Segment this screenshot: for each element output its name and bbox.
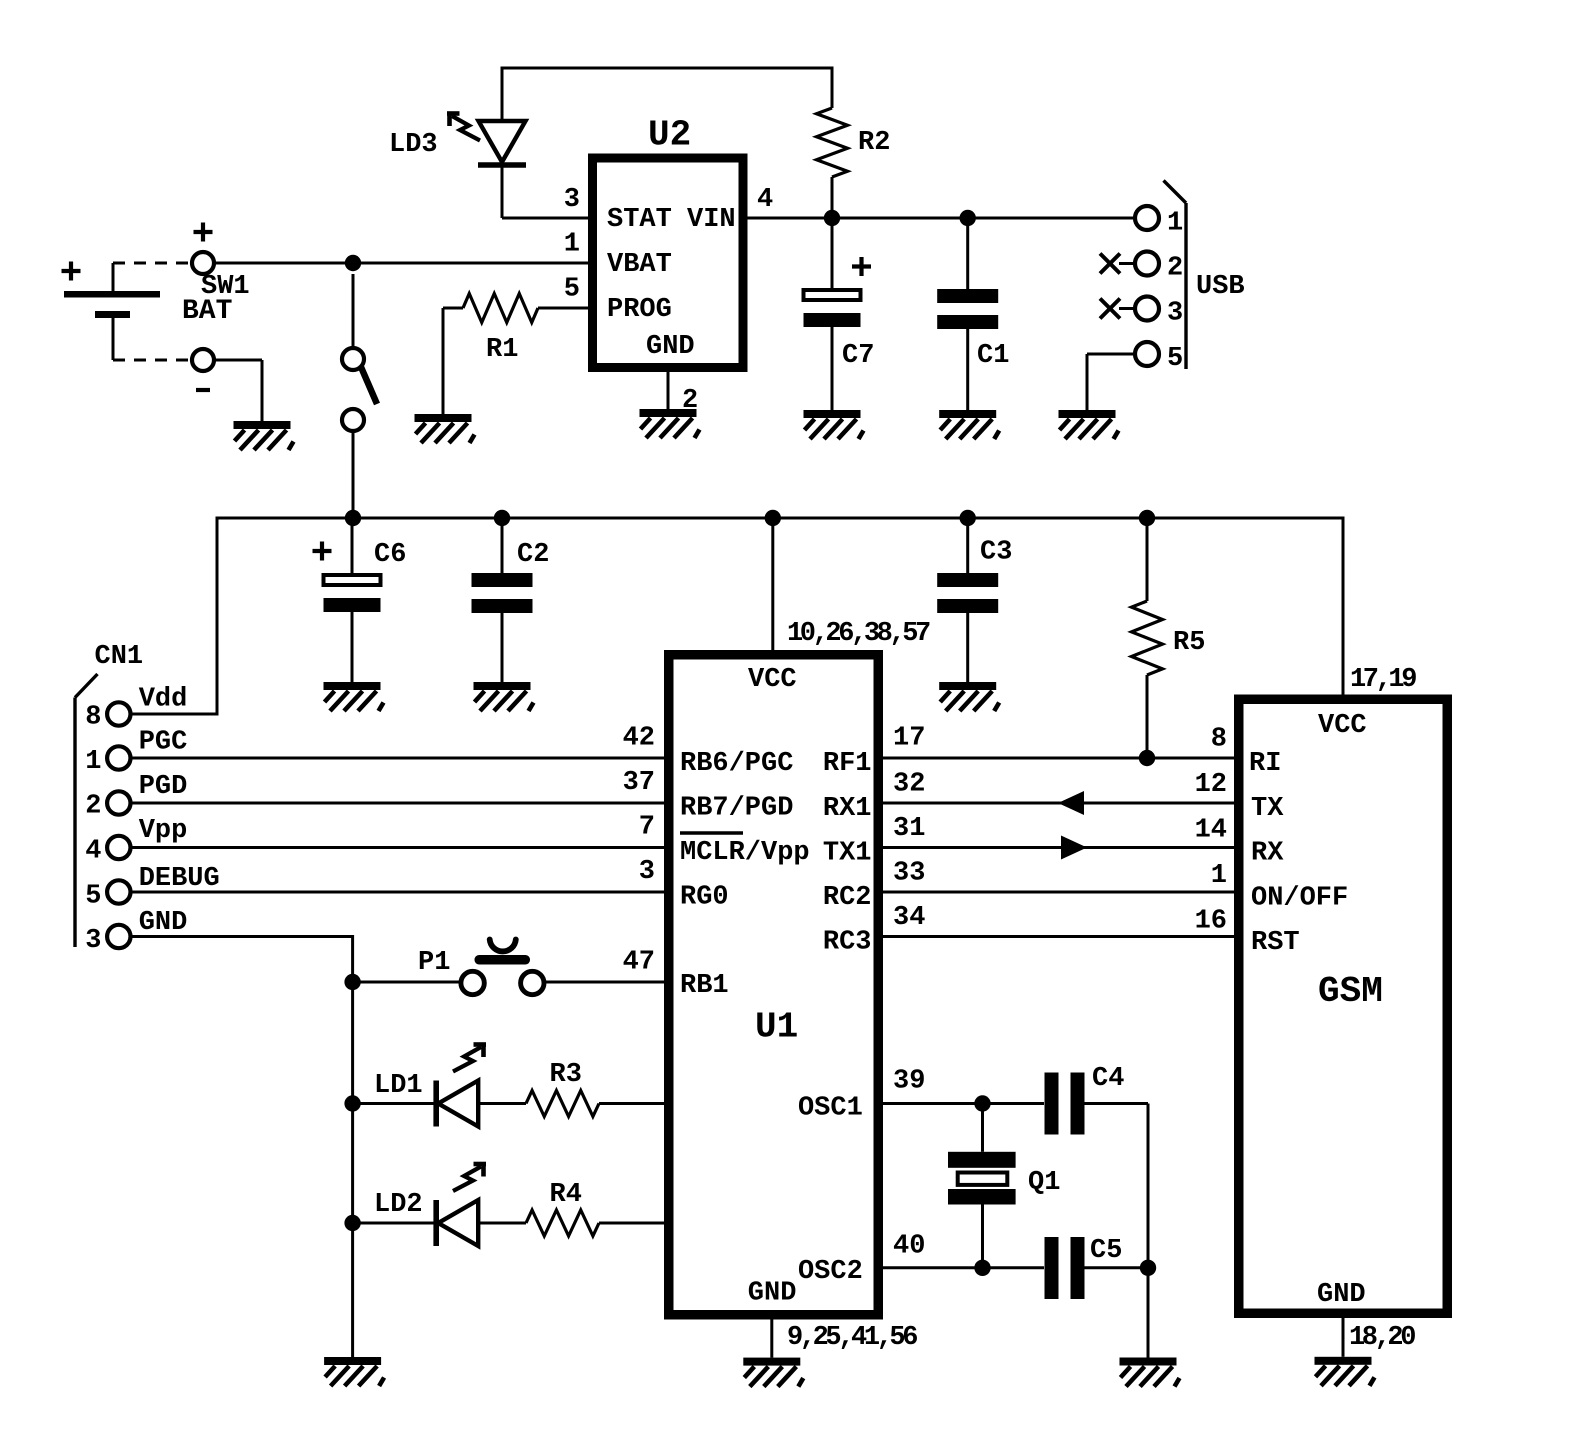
svg-text:37: 37 bbox=[623, 768, 655, 798]
node CN1 pin 3 GND bbox=[85, 908, 187, 956]
svg-text:10,26,38,57: 10,26,38,57 bbox=[787, 619, 930, 649]
svg-text:RX: RX bbox=[1251, 839, 1284, 869]
node CN1 pin 5 DEBUG bbox=[85, 864, 219, 912]
wire VCC bus bbox=[130, 518, 1343, 714]
ground bbox=[324, 682, 384, 711]
pin 10,26,38,57 VCC bbox=[773, 518, 930, 650]
LED LD3 bbox=[389, 114, 526, 219]
svg-text:U1: U1 bbox=[755, 1007, 798, 1048]
node CN1 pin 1 PGC bbox=[85, 728, 187, 778]
pin 18,20 GND bbox=[1343, 1318, 1415, 1357]
junction bbox=[824, 210, 840, 226]
wire TX1-RX bbox=[883, 836, 1234, 860]
wire RC3-RST bbox=[883, 935, 1234, 938]
junction bbox=[494, 510, 510, 526]
svg-text:3: 3 bbox=[85, 926, 101, 956]
svg-text:STAT: STAT bbox=[607, 205, 672, 235]
wire battery dashed - bbox=[113, 359, 192, 362]
svg-text:RF1: RF1 bbox=[823, 749, 872, 779]
svg-text:LD2: LD2 bbox=[374, 1190, 423, 1220]
connector USB bbox=[1164, 181, 1245, 370]
svg-text:14: 14 bbox=[1195, 816, 1227, 846]
wire OSC1 bbox=[883, 1102, 1044, 1105]
svg-text:3: 3 bbox=[564, 185, 580, 215]
svg-text:3: 3 bbox=[1167, 299, 1183, 329]
LED LD2 bbox=[353, 1164, 486, 1246]
svg-text:TX1: TX1 bbox=[823, 839, 872, 869]
svg-text:34: 34 bbox=[893, 903, 925, 933]
pin 17,19 VCC bbox=[1350, 665, 1416, 695]
svg-text:R1: R1 bbox=[486, 335, 518, 365]
wire RF1-RI bbox=[883, 757, 1234, 760]
svg-text:MCLR/Vpp: MCLR/Vpp bbox=[680, 838, 810, 868]
capacitor C6 bbox=[313, 518, 407, 682]
node USB pin 3 bbox=[1100, 297, 1183, 329]
svg-text:R3: R3 bbox=[550, 1060, 582, 1090]
svg-text:RB1: RB1 bbox=[680, 971, 729, 1001]
pin 9,25,41,56 GND bbox=[772, 1320, 917, 1358]
resistor R1 bbox=[443, 294, 588, 415]
IC GSM bbox=[1195, 699, 1448, 1313]
svg-text:PROG: PROG bbox=[607, 295, 672, 325]
ground bbox=[804, 410, 864, 439]
svg-text:17: 17 bbox=[893, 724, 925, 754]
svg-text:USB: USB bbox=[1196, 272, 1245, 302]
capacitor C7 bbox=[804, 218, 875, 410]
svg-text:DEBUG: DEBUG bbox=[139, 864, 220, 894]
svg-text:32: 32 bbox=[893, 770, 925, 800]
wire VBAT net bbox=[214, 262, 588, 265]
svg-text:2: 2 bbox=[85, 792, 101, 822]
connector CN1 bbox=[75, 642, 143, 947]
svg-text:18,20: 18,20 bbox=[1349, 1323, 1415, 1353]
node BAT- terminal bbox=[192, 349, 214, 390]
ground bbox=[234, 421, 294, 450]
svg-text:GND: GND bbox=[646, 332, 695, 362]
node USB pin 5 bbox=[1087, 342, 1183, 410]
svg-text:33: 33 bbox=[893, 859, 925, 889]
svg-text:GSM: GSM bbox=[1318, 971, 1383, 1012]
resistor R2 bbox=[817, 108, 891, 218]
junction bbox=[344, 1095, 360, 1111]
svg-text:ON/OFF: ON/OFF bbox=[1251, 884, 1348, 914]
svg-text:GND: GND bbox=[748, 1279, 797, 1309]
wire PGD bbox=[131, 802, 665, 805]
svg-text:Q1: Q1 bbox=[1028, 1168, 1060, 1198]
svg-text:40: 40 bbox=[893, 1232, 925, 1262]
wire OSC2 bbox=[883, 1266, 1044, 1269]
svg-text:RG0: RG0 bbox=[680, 883, 729, 913]
svg-text:C4: C4 bbox=[1092, 1064, 1124, 1094]
svg-text:4: 4 bbox=[85, 837, 101, 867]
ground bbox=[1315, 1357, 1375, 1386]
svg-text:VCC: VCC bbox=[748, 665, 797, 695]
junction bbox=[974, 1095, 990, 1111]
svg-text:8: 8 bbox=[85, 703, 101, 733]
ground bbox=[474, 682, 534, 711]
node USB pin 1 bbox=[1135, 206, 1183, 239]
svg-text:RST: RST bbox=[1251, 928, 1300, 958]
svg-text:LD1: LD1 bbox=[374, 1071, 423, 1101]
svg-text:31: 31 bbox=[893, 814, 925, 844]
svg-text:1: 1 bbox=[1211, 861, 1227, 891]
svg-text:5: 5 bbox=[1167, 344, 1183, 374]
svg-text:U2: U2 bbox=[648, 115, 691, 156]
capacitor C1 bbox=[937, 218, 1009, 410]
resistor R3 bbox=[478, 1060, 664, 1117]
ground bbox=[1059, 410, 1119, 439]
svg-text:P1: P1 bbox=[418, 948, 450, 978]
svg-text:GND: GND bbox=[139, 908, 188, 938]
svg-text:RI: RI bbox=[1249, 749, 1281, 779]
wire PGC bbox=[131, 757, 665, 760]
svg-text:SW1: SW1 bbox=[201, 272, 250, 302]
svg-text:Vdd: Vdd bbox=[139, 685, 188, 715]
junction bbox=[345, 510, 361, 526]
node BAT+ terminal bbox=[192, 223, 214, 275]
wire C4-C5 to ground bbox=[1147, 1104, 1150, 1358]
junction bbox=[960, 510, 976, 526]
svg-text:C1: C1 bbox=[977, 341, 1009, 371]
junction bbox=[765, 510, 781, 526]
ground bbox=[324, 1357, 384, 1386]
LED LD1 bbox=[353, 1045, 486, 1127]
capacitor C5 bbox=[1045, 1236, 1149, 1299]
svg-text:LD3: LD3 bbox=[389, 130, 438, 160]
svg-text:R5: R5 bbox=[1173, 628, 1205, 658]
svg-text:RC2: RC2 bbox=[823, 883, 872, 913]
svg-text:1: 1 bbox=[85, 747, 101, 777]
svg-text:VCC: VCC bbox=[1318, 711, 1367, 741]
svg-text:RB6/PGC: RB6/PGC bbox=[680, 749, 793, 779]
svg-text:C5: C5 bbox=[1090, 1236, 1122, 1266]
junction bbox=[1140, 1260, 1156, 1276]
svg-text:OSC2: OSC2 bbox=[798, 1257, 863, 1287]
junction bbox=[1139, 510, 1155, 526]
wire GND chain bbox=[131, 937, 353, 1358]
svg-text:1: 1 bbox=[564, 230, 580, 260]
svg-text:TX: TX bbox=[1251, 794, 1284, 824]
ground bbox=[743, 1358, 803, 1387]
svg-text:Vpp: Vpp bbox=[139, 816, 188, 846]
svg-text:OSC1: OSC1 bbox=[798, 1094, 863, 1124]
svg-text:8: 8 bbox=[1211, 725, 1227, 755]
node USB pin 2 bbox=[1100, 252, 1183, 284]
IC U1 bbox=[623, 655, 926, 1315]
junction bbox=[344, 1215, 360, 1231]
svg-text:C2: C2 bbox=[517, 540, 549, 570]
svg-text:RC3: RC3 bbox=[823, 928, 872, 958]
svg-text:CN1: CN1 bbox=[95, 642, 144, 672]
svg-text:12: 12 bbox=[1195, 770, 1227, 800]
svg-text:42: 42 bbox=[623, 724, 655, 754]
svg-text:3: 3 bbox=[639, 857, 655, 887]
switch SW1 bbox=[201, 272, 377, 518]
junction bbox=[345, 255, 361, 271]
svg-text:PGC: PGC bbox=[139, 728, 188, 758]
resistor R5 bbox=[1132, 518, 1206, 758]
svg-text:C7: C7 bbox=[842, 341, 874, 371]
capacitor C3 bbox=[937, 518, 1012, 682]
pushbutton P1 bbox=[353, 940, 664, 995]
wire BAT- to ground bbox=[214, 360, 262, 421]
svg-text:39: 39 bbox=[893, 1067, 925, 1097]
capacitor C4 bbox=[1045, 1064, 1149, 1135]
ground bbox=[1120, 1358, 1180, 1387]
svg-text:17,19: 17,19 bbox=[1350, 665, 1416, 695]
wire STAT bbox=[502, 217, 588, 220]
svg-text:47: 47 bbox=[623, 948, 655, 978]
svg-text:C6: C6 bbox=[374, 540, 406, 570]
node CN1 pin 2 PGD bbox=[85, 772, 187, 822]
wire Vpp bbox=[131, 846, 665, 849]
svg-text:2: 2 bbox=[1167, 254, 1183, 284]
wire battery dashed + bbox=[113, 262, 192, 265]
wire U2 GND bbox=[667, 372, 670, 409]
wire RX1-TX bbox=[883, 791, 1234, 815]
svg-text:R2: R2 bbox=[858, 128, 890, 158]
svg-text:GND: GND bbox=[1317, 1280, 1366, 1310]
ground bbox=[415, 414, 475, 443]
ground bbox=[939, 410, 999, 439]
junction bbox=[344, 974, 360, 990]
battery BAT bbox=[62, 262, 233, 361]
svg-text:VBAT: VBAT bbox=[607, 250, 672, 280]
ground bbox=[939, 682, 999, 711]
junction bbox=[960, 210, 976, 226]
svg-text:9,25,41,56: 9,25,41,56 bbox=[787, 1323, 917, 1353]
wire DEBUG bbox=[131, 891, 665, 894]
wire top loop bbox=[502, 68, 832, 121]
junction bbox=[974, 1260, 990, 1276]
node CN1 pin 4 Vpp bbox=[85, 816, 187, 867]
wire VIN net bbox=[748, 217, 1136, 220]
svg-text:1: 1 bbox=[1167, 209, 1183, 239]
svg-text:RX1: RX1 bbox=[823, 794, 872, 824]
crystal Q1 bbox=[948, 1104, 1060, 1268]
svg-text:R4: R4 bbox=[550, 1180, 582, 1210]
svg-text:PGD: PGD bbox=[139, 772, 188, 802]
junction bbox=[1139, 750, 1155, 766]
ground bbox=[640, 409, 700, 438]
resistor R4 bbox=[478, 1180, 664, 1236]
svg-text:VIN: VIN bbox=[687, 205, 736, 235]
svg-text:4: 4 bbox=[757, 185, 773, 215]
svg-text:RB7/PGD: RB7/PGD bbox=[680, 794, 793, 824]
svg-text:C3: C3 bbox=[980, 538, 1012, 568]
capacitor C2 bbox=[472, 518, 550, 682]
wire RC2-ONOFF bbox=[883, 891, 1234, 894]
svg-text:5: 5 bbox=[564, 275, 580, 305]
node CN1 pin 8 Vdd bbox=[85, 685, 187, 733]
svg-text:16: 16 bbox=[1195, 907, 1227, 937]
svg-text:5: 5 bbox=[85, 882, 101, 912]
IC U2 bbox=[564, 115, 773, 417]
svg-text:7: 7 bbox=[639, 813, 655, 843]
